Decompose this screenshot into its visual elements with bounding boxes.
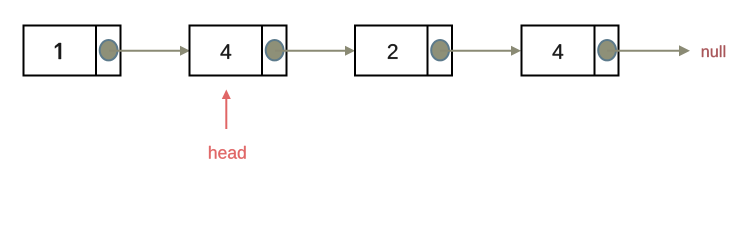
node 3 value "2" — [388, 44, 398, 59]
node 2 value "4" — [221, 44, 232, 58]
node 2 box — [190, 26, 287, 76]
head pointer arrow — [222, 90, 231, 130]
node null label — [702, 45, 725, 57]
node 1 value "1" — [55, 43, 61, 59]
wire: node4 -> null — [607, 45, 690, 56]
node 2 pointer circle — [266, 40, 284, 60]
node 3 box — [355, 26, 452, 76]
node 4 box — [522, 26, 619, 76]
wire: node2 -> node3 — [275, 46, 355, 56]
node 4 pointer circle — [598, 40, 616, 60]
node 4 value "4" — [553, 44, 564, 58]
node 1 pointer circle — [100, 40, 118, 60]
node 3 pointer circle — [431, 40, 449, 60]
wire: node1 -> node2 — [109, 46, 190, 56]
wire: node3 -> node4 — [440, 46, 521, 56]
head label — [209, 146, 246, 159]
node 1 box — [24, 26, 121, 76]
